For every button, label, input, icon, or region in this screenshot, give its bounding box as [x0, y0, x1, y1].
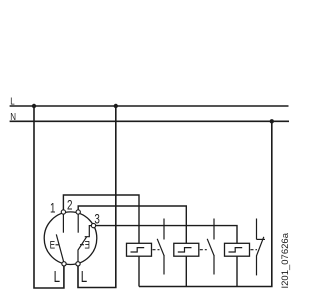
- contact 1 bottom wire: [163, 256, 165, 275]
- svg-text:N: N: [10, 111, 16, 122]
- terminal circle pin 3: [91, 223, 95, 227]
- svg-text:E: E: [84, 239, 90, 251]
- dashed link box 2 to contact 2: [200, 249, 207, 251]
- step symbol in box 1: [131, 248, 145, 252]
- timer box 1: [127, 243, 152, 256]
- dash of E left: [56, 244, 59, 246]
- svg-text:L: L: [10, 96, 14, 107]
- timer box 2: [174, 243, 199, 256]
- twilight switch body circle: [44, 212, 97, 265]
- internal fixed contact from pin 1: [62, 212, 64, 233]
- contact 3 blade: [257, 237, 264, 256]
- step symbol in box 3: [229, 248, 243, 252]
- svg-text:I201_07626a: I201_07626a: [280, 232, 291, 288]
- contact 2 blade: [207, 239, 214, 256]
- contact 1 blade: [157, 239, 164, 256]
- terminal circle bottom left L: [62, 262, 66, 266]
- svg-text:E: E: [50, 239, 56, 251]
- svg-text:L: L: [81, 267, 88, 285]
- dashed link box 3 to contact 3: [251, 249, 258, 251]
- svg-text:1: 1: [50, 200, 56, 216]
- contact 2 fixed stub: [213, 219, 215, 240]
- junction dot on N bus: [270, 119, 274, 123]
- svg-text:2: 2: [67, 197, 73, 213]
- wire: bottom-right terminal down, right, and riser up to L bus: [78, 106, 116, 288]
- terminal circle pin 2: [76, 210, 80, 214]
- contact 3 NC tick: [257, 238, 266, 240]
- L bus line: [10, 105, 289, 107]
- internal fixed contact from pin 2: [77, 212, 79, 233]
- wire: left riser from L bus down and to bottom-left terminal: [34, 106, 64, 288]
- junction dot on L bus left: [32, 104, 36, 108]
- timer box 3: [225, 243, 250, 256]
- dash of E right: [80, 244, 84, 246]
- wire: pin 2 feed up, right, down into box 2: [78, 206, 186, 287]
- terminal circle pin 1: [61, 210, 65, 214]
- step symbol in box 2: [178, 248, 192, 252]
- dashed link box 1 to contact 1: [153, 249, 160, 251]
- junction dot on L bus right: [114, 104, 118, 108]
- terminal circle bottom right L: [76, 262, 80, 266]
- internal hook contact from pin 3: [85, 226, 94, 237]
- contact 3 bottom wire: [256, 256, 258, 276]
- internal left switch blade: [56, 234, 64, 263]
- internal right switch blade: [78, 237, 87, 264]
- wire: pin 3 feed right, down into box 3: [94, 226, 238, 287]
- wire: pin 1 feed up, right, down into box 1: [63, 195, 139, 287]
- wire: N riser down right side and bottom bus under timer boxes: [139, 121, 272, 286]
- contact 2 bottom wire: [213, 256, 215, 275]
- N bus line: [10, 120, 289, 122]
- contact 1 fixed stub: [163, 219, 165, 240]
- svg-text:3: 3: [94, 211, 100, 227]
- contact 3 fixed stub: [256, 219, 258, 240]
- svg-text:L: L: [54, 267, 61, 285]
